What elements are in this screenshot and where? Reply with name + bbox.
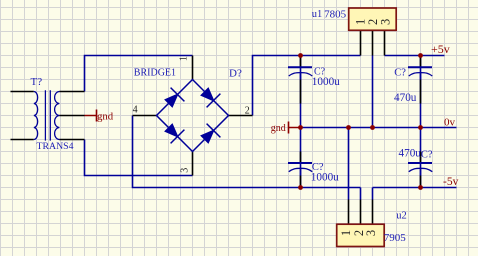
svg-text:u1: u1: [312, 9, 323, 20]
svg-text:0v: 0v: [444, 117, 456, 129]
svg-text:7805: 7805: [324, 8, 347, 20]
svg-text:3: 3: [379, 19, 393, 25]
svg-text:gnd: gnd: [97, 111, 114, 123]
svg-text:u2: u2: [396, 210, 407, 221]
svg-text:7905: 7905: [384, 232, 407, 244]
svg-text:470u: 470u: [394, 92, 417, 104]
svg-text:C?: C?: [394, 67, 406, 78]
svg-text:D?: D?: [229, 67, 242, 79]
svg-text:BRIDGE1: BRIDGE1: [134, 67, 176, 78]
svg-text:C?: C?: [421, 150, 433, 161]
svg-text:T?: T?: [31, 76, 43, 88]
svg-text:-5v: -5v: [443, 176, 459, 188]
svg-text:TRANS4: TRANS4: [37, 141, 74, 152]
svg-text:3: 3: [179, 168, 190, 173]
svg-text:3: 3: [364, 230, 378, 236]
svg-text:470u: 470u: [399, 147, 422, 159]
svg-text:gnd: gnd: [271, 123, 286, 134]
svg-text:1000u: 1000u: [311, 172, 339, 184]
svg-text:1: 1: [339, 230, 353, 236]
svg-text:2: 2: [245, 106, 250, 117]
svg-text:1: 1: [178, 56, 189, 61]
svg-text:4: 4: [133, 104, 138, 115]
svg-text:+5v: +5v: [431, 42, 450, 56]
svg-text:1000u: 1000u: [312, 76, 340, 88]
